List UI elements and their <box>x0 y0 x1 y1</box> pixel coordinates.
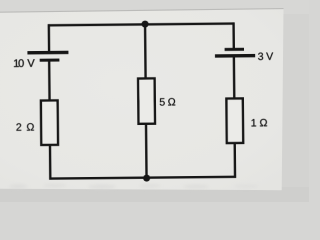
bottom edge mottling <box>9 184 258 190</box>
wire: right branch lower segment <box>234 143 237 178</box>
resistor R1 2-ohm box <box>41 100 58 145</box>
wire: right branch upper segment <box>232 23 235 50</box>
page top edge shadow line <box>0 9 284 13</box>
battery V1 positive plate (long bar) <box>27 51 68 55</box>
resistor R3 1-ohm box <box>226 98 243 143</box>
resistor R2 5-ohm box <box>138 78 155 123</box>
battery V2 negative plate (short bar) <box>225 48 244 51</box>
wire: left branch upper segment <box>48 24 51 52</box>
label 2 ohm <box>16 123 34 131</box>
scanned page <box>0 9 284 191</box>
scan background bottom band <box>0 187 309 202</box>
label 10 V <box>14 59 35 67</box>
wire: bottom horizontal (node 2) <box>49 177 236 179</box>
node B: bottom junction dot <box>143 175 150 182</box>
label 1 ohm <box>251 119 267 127</box>
label 3 V <box>258 52 273 60</box>
wire: middle branch lower segment <box>145 124 148 178</box>
wire: left branch middle segment <box>48 60 51 100</box>
battery V1 negative plate (short bar) <box>40 59 60 62</box>
battery V2 positive plate (long bar) <box>215 54 255 58</box>
label 5 ohm <box>160 98 176 106</box>
wire: right branch middle segment <box>233 56 236 99</box>
wire: middle branch upper segment <box>144 24 147 78</box>
scan background top sliver <box>0 0 309 14</box>
wire: top horizontal (node 1) <box>48 24 235 26</box>
wire: left branch lower segment <box>49 145 52 180</box>
node A: top junction dot <box>142 21 149 28</box>
